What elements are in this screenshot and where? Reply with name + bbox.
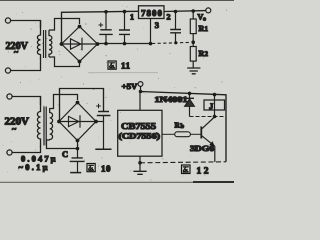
scan border top: [0, 0, 234, 2]
transistor Q1 base bar: [200, 127, 202, 139]
node C1 bottom rail: [104, 42, 108, 46]
svg-text:2: 2: [205, 50, 209, 58]
wire faint smudge under figure 11: [88, 72, 158, 74]
wire J1a to transformer primary top: [11, 21, 41, 29]
terminal Vo output: [206, 8, 211, 13]
node R1 R2 divider: [191, 40, 195, 44]
diode D1 anode lead: [189, 106, 191, 116]
wire J1b to transformer primary bottom: [11, 58, 41, 71]
wire emitter to bottom rail: [214, 146, 216, 162]
svg-text:3: 3: [155, 20, 159, 30]
wire top rail from bridge left corner to 7800 pin1: [62, 11, 139, 44]
ground GND2: [133, 171, 146, 174]
wire J2a to T2 primary top: [12, 97, 40, 106]
wire U1 pin3 to bottom rail: [150, 19, 152, 44]
terminal J1a (AC input top): [5, 18, 10, 23]
transformer T1 primary winding: [37, 21, 40, 60]
svg-text:o: o: [203, 17, 206, 23]
svg-text:1: 1: [130, 13, 134, 22]
transformer T1 secondary winding: [49, 30, 52, 57]
svg-text:10: 10: [101, 164, 111, 174]
resistor R2 body: [190, 47, 196, 62]
resistor R1 lead top: [192, 11, 194, 19]
capacitor C4 plates: [97, 112, 111, 116]
node C1 top rail: [104, 10, 108, 14]
svg-text:1N4001: 1N4001: [155, 95, 188, 104]
svg-text:1: 1: [205, 25, 209, 33]
wire +5V rail: [141, 92, 227, 162]
resistor R1 body: [190, 19, 196, 34]
capacitor C2 lead top: [124, 12, 126, 31]
resistor R1 lead bottom: [192, 34, 194, 47]
wire T1 secondary bottom to bridge bottom corner: [49, 57, 80, 67]
capacitor C2 plates: [119, 30, 130, 34]
capacitor C3 lead top: [175, 12, 177, 30]
svg-text:C: C: [62, 149, 68, 159]
bridge rectifier B1 diamond: [62, 27, 98, 62]
node bridge B1 left: [60, 42, 64, 46]
svg-text:11: 11: [121, 61, 131, 71]
transformer T1 core: [43, 30, 45, 58]
capacitor C5 lead bottom: [77, 161, 79, 172]
node R1 top rail: [191, 9, 195, 13]
node bridge B1 right: [96, 42, 100, 46]
node bridge B1 top: [78, 25, 82, 29]
diode D1 cathode lead: [189, 93, 191, 98]
terminal +5V: [138, 82, 143, 87]
svg-text:~0.1μ: ~0.1μ: [19, 162, 48, 172]
capacitor C2 lead bottom: [124, 34, 126, 43]
node C junction: [76, 147, 80, 151]
node C3 top rail: [174, 10, 178, 14]
label figure 11 glyph: [108, 61, 116, 69]
scan speckle noise: [2, 5, 227, 181]
node bridge B2 right: [94, 120, 98, 124]
wire relay K1 through: [214, 94, 216, 116]
transformer T2 secondary winding: [50, 108, 53, 140]
scan border bottom: [0, 181, 234, 183]
capacitor C3 plates: [170, 30, 181, 33]
wire T2 secondary top to bridge top corner: [50, 95, 78, 109]
node bridge B2 left: [57, 120, 61, 124]
wire IC U2 bottom stub: [139, 156, 141, 171]
svg-text:+5V: +5V: [122, 82, 138, 91]
relay K1 coil box: [204, 100, 225, 110]
wire J2b to T2 primary bottom: [12, 146, 40, 153]
wire fig12 bottom rail: [140, 162, 226, 163]
transformer T2 primary winding: [37, 97, 40, 148]
capacitor C1 electrolytic lead top: [105, 12, 107, 30]
svg-text:3DG6: 3DG6: [190, 144, 214, 153]
node D1 rail: [188, 92, 192, 96]
svg-text:CB7555: CB7555: [121, 121, 157, 131]
terminal J1b (AC input bottom): [5, 68, 10, 73]
transistor Q1 collector: [202, 117, 215, 129]
capacitor C4 lead bottom: [103, 116, 105, 150]
label figure 12 glyph: [182, 165, 191, 174]
ground bar C4: [95, 148, 111, 150]
ground bar C5: [70, 172, 81, 174]
terminal J2a: [7, 94, 12, 99]
bridge B2 diode symbol: [60, 115, 95, 128]
capacitor C1 plates: [99, 30, 112, 35]
resistor Rb lead left: [162, 133, 175, 135]
wire T2 secondary bottom to node C: [47, 140, 78, 149]
node C2 bottom rail: [123, 42, 127, 46]
IC U2 CB7555 box: [118, 110, 162, 156]
capacitor C1 lead bottom: [105, 34, 107, 43]
node pin3 bottom rail: [149, 42, 153, 46]
svg-text:220V: 220V: [5, 117, 30, 128]
diode D1 cathode bar: [185, 97, 194, 99]
wire bottom rail solid part: [98, 43, 153, 45]
terminal J2b: [7, 150, 12, 155]
wire bottom rail faded part to divider node: [152, 42, 190, 43]
wire IC U2 top stub: [139, 92, 141, 111]
node +5V rail left: [139, 90, 143, 94]
node C2 top rail: [123, 10, 127, 14]
wire U1 pin2 output rail: [164, 10, 206, 13]
capacitor C1 plus sign: [99, 23, 104, 28]
regulator U1 7800 box: [139, 6, 165, 19]
svg-text:2: 2: [167, 13, 171, 22]
resistor Rb lead right: [190, 133, 201, 135]
node bridge B2 top: [76, 101, 80, 105]
resistor Rb body: [175, 132, 191, 137]
svg-text:(CD7556): (CD7556): [119, 132, 161, 141]
resistor R2 lead bottom: [192, 61, 194, 68]
transformer T2 core: [43, 107, 45, 146]
ground GND1: [187, 68, 200, 74]
diode D1 triangle: [185, 99, 195, 106]
wire fig10 top rail: [60, 89, 104, 122]
node fig12 ground: [138, 161, 142, 165]
capacitor C3 lead bottom: [175, 33, 177, 43]
transistor Q1 emitter arrow: [209, 141, 215, 146]
node relay top: [213, 93, 217, 97]
wire +5V terminal to rail node: [140, 86, 142, 91]
node C3 bottom: [174, 41, 177, 44]
capacitor C5 plates: [70, 158, 85, 162]
wire bridge B2 right corner to C4: [96, 121, 104, 123]
bridge B1 diode symbol: [62, 38, 97, 51]
node bridge B1 bottom: [78, 60, 82, 64]
svg-text:b: b: [181, 123, 185, 130]
node relay bottom collector: [213, 115, 217, 119]
capacitor C4 plus sign: [96, 104, 101, 109]
wire collector node line: [190, 116, 227, 118]
node bridge B2 bottom: [76, 139, 80, 143]
transistor Q1 emitter: [202, 136, 215, 146]
svg-text:7800: 7800: [141, 8, 163, 18]
wire bridge B2 bottom to capacitor C: [77, 141, 79, 158]
wire T1 secondary top to bridge top corner: [49, 19, 80, 31]
label figure 10 glyph: [87, 164, 95, 172]
bridge rectifier B2 diamond: [59, 103, 96, 141]
